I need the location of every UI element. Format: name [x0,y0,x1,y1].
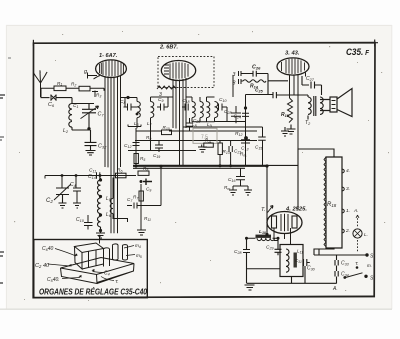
svg-text:1- 6A7.: 1- 6A7. [99,53,118,59]
svg-text:R18: R18 [327,202,337,208]
wire y150 [128,150,196,152]
svg-text:C20: C20 [193,118,200,124]
svg-text:T.: T. [261,207,265,213]
IF transformer T1 [128,97,174,151]
power feed from bus [266,166,268,235]
tube U2 leads [173,78,186,166]
svg-text:C11: C11 [89,168,96,174]
variable capacitor C7 [81,104,99,129]
heavy bus y166 [133,165,267,167]
resistor R18 ballast [324,157,344,248]
bottom wire [247,277,337,284]
svg-text:Rm: Rm [224,185,230,191]
resistor R8 [138,171,149,175]
svg-text:C10: C10 [219,97,226,103]
svg-text:C4: C4 [104,271,110,277]
resistor R7 [139,191,143,201]
svg-text:C24: C24 [234,114,241,120]
capacitor C13 [241,140,250,143]
wire antenna to C6 [41,97,50,99]
svg-text:C10: C10 [76,217,85,223]
svg-text:C9: C9 [158,97,163,103]
left component chain R5 R8 C9 R7 [135,128,137,166]
capacitor C24 [242,113,249,116]
svg-text:C31: C31 [295,258,302,264]
svg-text:R11: R11 [205,138,212,144]
svg-text:C33: C33 [341,261,350,267]
svg-text:A.: A. [353,208,359,214]
chassis sketch: coil box on top [75,243,104,269]
svg-text:ORGANES DE RÉGLAGE C35-C40: ORGANES DE RÉGLAGE C35-C40 [39,287,147,297]
ground bottom left [245,285,255,290]
chassis sketch: base block [61,258,135,284]
wire AVC row [41,88,104,97]
IF transformer T3 [207,97,218,122]
svg-text:C32: C32 [98,144,107,150]
tube U1 leads [105,76,121,234]
svg-text:R3: R3 [96,93,101,99]
svg-text:C18: C18 [182,98,189,104]
resistor R15 squiggle + ground [288,98,293,123]
svg-text:C27: C27 [306,76,315,82]
chassis sketch: pin above box [99,237,101,244]
capacitor C11 on AVC line [97,172,100,178]
svg-text:C540.: C540. [47,277,60,283]
svg-text:T2: T2 [305,120,311,126]
capacitor C28b filter input [243,238,250,283]
grid stubs 3 and 8 at U3 [239,71,244,84]
svg-text:C25: C25 [255,88,264,94]
capacitor C22 right of T3 [219,104,228,122]
wire from C25 down [246,75,299,166]
ground below stack [96,233,105,238]
tube U4 25Z5 envelope [267,212,302,234]
svg-text:2. 6B7.: 2. 6B7. [159,45,178,51]
svg-text:R2: R2 [71,82,76,88]
capacitor C16 + grounds [236,168,245,185]
svg-text:m5: m5 [136,253,142,259]
chassis sketch: tube cylinders [103,244,127,267]
capacitor C25 [246,92,300,98]
capacitor C33 [335,260,338,271]
resistor R14 (wavy) [243,80,266,82]
switch terminals S [314,249,367,260]
svg-text:C26: C26 [252,65,261,71]
svg-text:C29: C29 [266,245,273,251]
capacitor C17 right of T1 [157,97,173,111]
ground below C2 [59,203,67,208]
svg-text:L11: L11 [297,249,303,255]
wire C6 to node [57,98,95,104]
resistor R1 [54,86,66,91]
coil L3 zigzag under U2 [157,86,176,89]
svg-text:C1: C1 [73,103,78,109]
tube U4 leads [274,228,291,245]
capacitor C6 (series x-mark) [51,95,57,101]
capacitor C27 [302,76,322,95]
svg-text:A.: A. [332,286,338,292]
tube U3 43 envelope [277,58,309,75]
svg-text:8: 8 [233,81,236,87]
resistor R2 [79,86,90,91]
svg-text:C16: C16 [228,177,235,183]
svg-text:S.: S. [370,276,375,282]
tube U1 6A7 envelope [96,60,127,78]
oscillator coil stack L4 L5 L6 [98,178,101,233]
speaker [320,89,352,117]
svg-text:C30: C30 [307,266,316,272]
AVC line [45,176,136,189]
capacitor C30 [304,259,310,284]
svg-text:L.: L. [364,232,368,238]
svg-text:R6: R6 [117,168,122,174]
svg-text:3.: 3. [346,186,350,192]
variable capacitor C2 [54,184,71,203]
svg-text:1.: 1. [346,208,350,214]
svg-text:C28: C28 [234,249,241,255]
svg-text:C9: C9 [146,187,151,193]
svg-text:C15: C15 [255,145,262,151]
svg-text:C28: C28 [224,109,231,115]
svg-text:R1: R1 [57,81,62,87]
ground top mid [281,127,289,136]
svg-text:R10: R10 [163,125,170,131]
shield box around U2 (dashed) [158,57,214,88]
wire loop to bus [141,168,161,208]
ground mid [198,145,207,153]
svg-text:3. 43.: 3. 43. [285,51,300,57]
wire y131 [136,130,257,132]
faint box 7.5 [193,128,217,143]
svg-text:C2: C2 [46,198,53,204]
svg-text:Rm.: Rm. [240,152,247,158]
svg-text:C7: C7 [98,112,105,118]
svg-text:2.: 2. [345,228,350,234]
svg-text:R8: R8 [143,166,148,172]
svg-text:T.: T. [355,261,359,266]
capacitor C15 [258,127,266,166]
capacitor C19 [155,141,163,153]
svg-text:m4: m4 [135,243,141,249]
svg-text:m.: m. [367,263,372,268]
svg-text:R11: R11 [144,216,151,222]
svg-text:3: 3 [233,72,236,78]
resistor R6 on AVC line [116,173,127,178]
capacitor C28 [231,106,241,123]
wire y121 [215,121,246,123]
scan speckles [14,31,389,301]
svg-text:C12: C12 [124,143,131,149]
capacitor C7b stub [127,203,141,209]
capacitor C29 (right) [275,238,282,255]
tube U2 6B7 envelope [161,61,195,81]
svg-text:T.: T. [115,279,119,284]
R18 top wire [298,149,334,255]
antenna coil L1/L2 column [69,104,90,131]
svg-text:R15: R15 [281,112,290,118]
output transformer T4 [299,95,323,120]
bus junction dots [135,165,138,168]
capacitor C21 [229,141,232,166]
capacitor C10 tap [84,215,93,230]
inset box [34,240,148,298]
inset leader lines [48,246,135,281]
main frame border [33,40,378,298]
ground under R11 [137,230,146,235]
filter box with L11 [280,245,303,277]
tickler coil L7 + elbow [110,178,127,223]
wire y140 [135,140,257,142]
wire from U3 region down right side [268,81,298,211]
capacitor C8 [124,98,138,111]
misc connecting wires top-left to mid [128,125,141,127]
wire y127 [183,126,263,128]
wires top of IF cans [120,75,233,98]
capacitor C20 [186,118,193,131]
svg-text:C640: C640 [42,246,53,252]
svg-text:4.: 4. [346,168,350,174]
capacitor C18 left of T2 [182,94,188,111]
svg-text:C8: C8 [120,99,125,105]
svg-text:R9: R9 [146,135,151,141]
svg-text:C19: C19 [153,153,160,159]
scan specks at left edge [0,95,5,98]
junction dot [126,96,129,99]
svg-text:R12: R12 [235,131,242,137]
svg-text:R5: R5 [140,156,145,162]
svg-text:S.: S. [370,254,375,260]
tube U3 leads [290,73,306,99]
capacitor C32 [85,130,97,155]
svg-text:L2: L2 [63,128,69,134]
choke L10 [256,235,272,238]
svg-text:C4: C4 [70,182,76,188]
svg-text:C2 40: C2 40 [35,263,50,269]
IF transformer T2 [186,97,203,122]
wire into filter box [247,268,281,270]
capacitor C4 [73,188,81,208]
capacitor C34 + switch [335,271,338,284]
svg-text:L10: L10 [259,229,266,235]
antenna [33,70,47,97]
resistor R10 [162,130,172,135]
grid stub g + cap at U1 [88,73,98,79]
capacitor C26 [243,71,288,81]
svg-text:C14: C14 [88,174,96,180]
svg-text:C6: C6 [48,102,55,108]
capacitor C9 [143,179,152,186]
resistor R13 vertical [218,143,222,155]
